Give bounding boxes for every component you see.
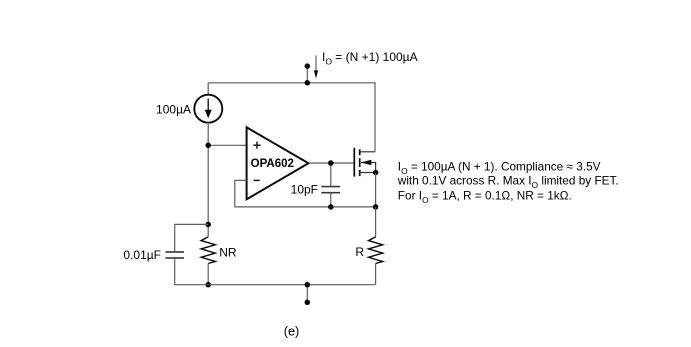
wire left vertical (current source to NR top) bbox=[207, 122, 209, 237]
svg-text:NR: NR bbox=[219, 246, 237, 260]
annotation text block bbox=[397, 159, 619, 205]
node 10pF top bbox=[328, 160, 334, 166]
node top stub rail junction bbox=[305, 80, 311, 86]
wire top rail bbox=[208, 82, 375, 84]
node bottom stub end bbox=[305, 300, 311, 306]
node top stub end bbox=[305, 63, 311, 69]
svg-text:(e): (e) bbox=[284, 325, 300, 339]
wire bottom stub bbox=[306, 285, 308, 303]
node bottom stub rail junction bbox=[305, 282, 311, 288]
wire bottom rail bbox=[208, 284, 375, 286]
node + input junction bbox=[205, 143, 211, 149]
wire 0.01µF branch bottom bbox=[175, 259, 209, 285]
arrow Io direction bbox=[314, 55, 318, 78]
svg-text:R: R bbox=[355, 245, 364, 259]
wire NR lower lead bbox=[207, 264, 209, 285]
svg-text:OPA602: OPA602 bbox=[251, 158, 294, 170]
wire source down to feedback rail bbox=[375, 173, 377, 207]
wire 0.01µF branch top bbox=[175, 224, 209, 251]
wire feedback (inverting input loop) bbox=[235, 180, 376, 207]
op-amp U1 OPA602 bbox=[247, 127, 309, 199]
wire noninverting input bbox=[208, 144, 246, 146]
node feedback-R junction bbox=[373, 204, 379, 210]
node NR top junction bbox=[205, 222, 211, 228]
svg-text:For IO = 1A, R = 0.1Ω, NR = 1k: For IO = 1A, R = 0.1Ω, NR = 1kΩ. bbox=[398, 189, 572, 205]
wire top output stub bbox=[306, 66, 308, 83]
transistor Q1 FET bbox=[354, 148, 375, 177]
resistor NR bbox=[201, 237, 215, 264]
node NR bottom junction bbox=[205, 282, 211, 288]
capacitor C1 10pF bbox=[321, 163, 340, 207]
svg-text:with 0.1V across R. Max IO lim: with 0.1V across R. Max IO limited by FE… bbox=[397, 174, 619, 190]
svg-text:100µA: 100µA bbox=[156, 102, 191, 116]
wire left vertical upper (rail to current source) bbox=[207, 83, 209, 95]
current source I1 circle bbox=[194, 95, 222, 123]
wire drain up to rail bbox=[374, 83, 377, 152]
node 10pF bottom bbox=[328, 204, 334, 210]
wire op-amp output to gate bbox=[309, 162, 355, 164]
svg-text:IO = (N +1) 100µA: IO = (N +1) 100µA bbox=[322, 50, 418, 66]
resistor R bbox=[369, 237, 383, 264]
capacitor C2 0.01µF bbox=[165, 252, 184, 258]
svg-text:10pF: 10pF bbox=[291, 183, 318, 197]
wire R upper lead bbox=[375, 207, 377, 237]
label Io = (N +1) 100µA bbox=[322, 50, 418, 66]
wire R lower lead bbox=[375, 264, 377, 285]
svg-text:0.01µF: 0.01µF bbox=[123, 248, 161, 262]
node FET source bbox=[373, 170, 379, 176]
